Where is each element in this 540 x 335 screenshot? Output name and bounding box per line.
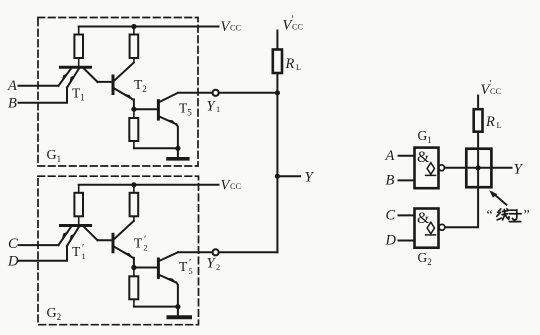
svg-text:Y: Y [207, 99, 217, 115]
svg-text:”: ” [524, 208, 530, 223]
gate G1 internal-circuit dashed box [38, 18, 198, 167]
node Y2 open circle [213, 249, 219, 255]
transistor T2' [113, 221, 134, 268]
svg-text:1: 1 [216, 105, 220, 114]
input D wire [19, 246, 68, 261]
svg-text:B: B [8, 95, 17, 111]
node: T2' emitter junction dot [131, 265, 136, 270]
inversion bubble G1 [439, 165, 445, 171]
svg-text:′: ′ [144, 235, 146, 246]
open-collector diamond G2 [426, 222, 436, 235]
VCC rail G1 wire [79, 26, 219, 28]
input A wire (right) [399, 155, 415, 157]
open-collector diamond G1 [426, 163, 436, 176]
node: VCC rail junction dot G2 [131, 182, 136, 187]
VCC rail G2 wire [79, 184, 219, 186]
svg-text:T: T [134, 235, 143, 250]
wire resistor to ground node G2 [134, 306, 178, 308]
resistor RL (left schematic) [273, 50, 282, 74]
V'CC lead wire (right) [477, 96, 479, 110]
transistor T1 (multi-emitter input) [59, 67, 112, 87]
svg-text:B: B [386, 172, 395, 188]
svg-text:CC: CC [230, 24, 242, 33]
resistor R (T1' base, G2) [74, 185, 83, 225]
node: VCC rail junction dot [131, 24, 136, 29]
svg-text:T1: T1 [72, 86, 85, 103]
gate G2 box (right) [415, 209, 439, 248]
transistor T5 [158, 93, 178, 149]
hanzi YU (and) drawn as strokes [509, 210, 521, 222]
svg-text:T: T [72, 244, 81, 259]
hanzi XIAN (wire) drawn as strokes [497, 209, 509, 220]
node: emitter-ground junction dot [175, 146, 180, 151]
svg-text:′: ′ [189, 258, 191, 269]
wire box to Y [491, 167, 511, 169]
transistor T2 [113, 63, 134, 110]
resistor RL (right) [474, 109, 483, 132]
transistor T1' (multi-emitter input) [59, 226, 112, 246]
svg-text:C: C [8, 236, 18, 252]
wire Y2 into G2 [178, 251, 213, 253]
resistor R (T2' collector, G2) [130, 185, 139, 221]
Y stub wire [277, 175, 300, 177]
gate G2 internal-circuit dashed box [38, 176, 199, 325]
svg-text:G2: G2 [47, 306, 62, 322]
V'CC lead wire [276, 31, 278, 50]
svg-text:G1: G1 [47, 148, 62, 164]
ground (G2) [169, 307, 191, 318]
svg-text:Y: Y [514, 161, 524, 177]
svg-text:D: D [385, 233, 397, 249]
wire Y1 to bus [219, 92, 278, 94]
resistor R (T2 collector, G1) [130, 27, 139, 63]
G1 output wire to junction box [445, 167, 467, 169]
svg-text:CC: CC [490, 87, 502, 96]
annotation arrow to box corner [489, 190, 506, 205]
svg-text:′: ′ [82, 243, 84, 254]
svg-text:L: L [497, 121, 502, 130]
svg-text:T2: T2 [134, 77, 147, 94]
resistor R (T2 emitter, G1) [129, 109, 138, 148]
svg-text:C: C [386, 208, 396, 224]
output Y1 wire from T5 collector [178, 92, 213, 94]
input C wire [19, 244, 59, 246]
node Y1 open circle [213, 90, 219, 96]
inversion bubble G2 [439, 224, 445, 230]
svg-text:Y: Y [207, 256, 217, 272]
wire bus to Y2 [219, 251, 278, 253]
node: emitter-ground junction dot G2 [175, 304, 180, 309]
wire junction to T5' base [134, 267, 157, 269]
wire RL to junction box [477, 132, 479, 149]
wire through box horizontal [466, 167, 491, 169]
svg-text:Y: Y [305, 170, 315, 186]
G2 output wire up to junction box [445, 187, 478, 227]
wire resistor to ground node [134, 147, 178, 149]
wire junction to T5 base [134, 108, 157, 110]
svg-text:D: D [7, 254, 19, 270]
svg-text:G1: G1 [418, 128, 432, 145]
gate G1 box (right) [415, 148, 439, 189]
input B wire (right) [399, 179, 415, 181]
node: Y junction dot [275, 174, 280, 179]
bus through junction box [477, 149, 479, 188]
svg-text:&: & [417, 149, 430, 166]
svg-text:R: R [485, 114, 495, 130]
svg-text:G2: G2 [418, 250, 432, 267]
svg-text:T5: T5 [179, 101, 192, 118]
node: T2 emitter junction dot [131, 107, 136, 112]
svg-text:CC: CC [230, 182, 242, 191]
input A wire [19, 85, 59, 87]
svg-text:R: R [285, 56, 295, 72]
svg-text:2: 2 [216, 263, 220, 272]
svg-text:CC: CC [292, 23, 304, 32]
svg-text:A: A [7, 78, 17, 94]
node: bus dot at Y1 [275, 90, 280, 95]
wired-AND junction box [466, 149, 491, 188]
wire RL to Y1 node [276, 73, 278, 93]
svg-text:A: A [385, 148, 395, 164]
svg-text:L: L [296, 63, 301, 72]
node: junction box dot [476, 165, 481, 170]
resistor R (T1 base, G1) [74, 27, 83, 67]
resistor R (T2' emitter, G2) [129, 268, 138, 307]
ground (G1) [168, 148, 188, 159]
input B wire [19, 88, 68, 103]
svg-text:T: T [179, 259, 188, 274]
input D wire (right) [399, 240, 415, 242]
transistor T5' [158, 252, 178, 306]
input C wire (right) [399, 214, 415, 216]
svg-text:&: & [417, 210, 430, 227]
bus wire vertical [276, 93, 278, 253]
svg-text:“: “ [487, 208, 493, 223]
